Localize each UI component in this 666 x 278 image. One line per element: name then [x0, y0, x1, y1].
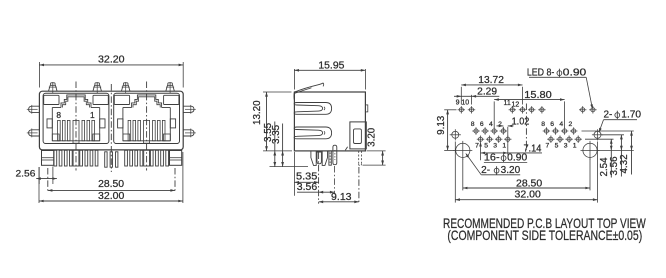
- svg-text:9.13: 9.13: [331, 192, 352, 203]
- svg-text:28.50: 28.50: [98, 179, 125, 190]
- svg-text:28.50: 28.50: [516, 179, 543, 190]
- svg-text:0.90: 0.90: [563, 67, 587, 78]
- svg-text:1: 1: [90, 110, 95, 120]
- svg-text:2-: 2-: [481, 165, 490, 176]
- svg-text:8: 8: [541, 121, 545, 128]
- svg-text:3: 3: [564, 143, 568, 150]
- svg-text:3.35: 3.35: [271, 124, 282, 144]
- svg-text:0.90: 0.90: [507, 152, 528, 163]
- svg-text:1.02: 1.02: [512, 116, 530, 127]
- svg-text:4: 4: [559, 121, 563, 128]
- svg-text:4.32: 4.32: [619, 154, 630, 173]
- svg-text:13.20: 13.20: [252, 100, 263, 125]
- svg-text:13.72: 13.72: [478, 75, 504, 86]
- svg-text:(COMPONENT SIDE TOLERANCE±0.05: (COMPONENT SIDE TOLERANCE±0.05): [447, 227, 642, 243]
- svg-text:8: 8: [56, 110, 61, 120]
- svg-text:16-: 16-: [484, 152, 500, 163]
- svg-text:32.00: 32.00: [515, 189, 542, 200]
- svg-text:15.95: 15.95: [318, 60, 345, 71]
- svg-text:5: 5: [555, 143, 559, 150]
- svg-text:3.20: 3.20: [366, 127, 377, 147]
- svg-text:2-: 2-: [604, 109, 613, 120]
- svg-text:9.13: 9.13: [436, 115, 447, 135]
- svg-text:32.00: 32.00: [98, 191, 125, 202]
- svg-text:5: 5: [484, 143, 488, 150]
- svg-text:6: 6: [550, 121, 554, 128]
- svg-text:2.56: 2.56: [16, 168, 36, 179]
- svg-text:32.20: 32.20: [98, 54, 125, 65]
- svg-text:2.29: 2.29: [477, 87, 497, 98]
- svg-text:4: 4: [489, 121, 493, 128]
- svg-text:12: 12: [512, 102, 520, 109]
- svg-text:15.80: 15.80: [524, 90, 552, 101]
- svg-text:7: 7: [546, 143, 550, 150]
- svg-text:7: 7: [475, 143, 479, 150]
- svg-text:11: 11: [503, 100, 510, 107]
- svg-text:1: 1: [502, 143, 506, 150]
- svg-text:3.20: 3.20: [501, 165, 521, 176]
- svg-text:2: 2: [569, 121, 573, 128]
- svg-text:6: 6: [480, 121, 484, 128]
- svg-text:3: 3: [493, 143, 497, 150]
- svg-text:LED 8-: LED 8-: [527, 67, 554, 78]
- svg-text:1.70: 1.70: [621, 109, 641, 120]
- svg-text:3.56: 3.56: [297, 182, 318, 193]
- svg-text:10: 10: [461, 99, 469, 106]
- svg-text:8: 8: [471, 121, 475, 128]
- svg-text:5.35: 5.35: [296, 172, 318, 183]
- svg-text:1: 1: [573, 143, 577, 150]
- svg-text:9: 9: [456, 99, 460, 106]
